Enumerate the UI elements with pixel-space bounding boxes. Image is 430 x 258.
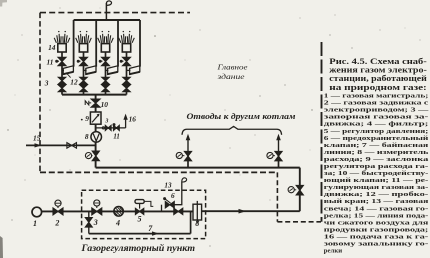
svg-text:вый кран; 13 — газовая: вый кран; 13 — газовая (324, 198, 429, 205)
pipe column 2 (83, 66, 85, 78)
boiler header pipe (96, 167, 300, 169)
svg-text:1 — газовая магистраль;: 1 — газовая магистраль; (324, 93, 429, 100)
svg-text:3: 3 (44, 79, 49, 88)
header drop pipe 1 (73, 20, 75, 67)
bypass rejoin pipe (190, 211, 192, 233)
valve 3 burner 1 (58, 77, 65, 84)
svg-text:8: 8 (195, 219, 199, 228)
svg-text:14: 14 (48, 43, 56, 52)
svg-text:релки: релки (324, 248, 342, 255)
arrow line 15 (35, 143, 42, 147)
svg-text:ющий клапан; 11 — ре-: ющий клапан; 11 — ре- (324, 177, 429, 184)
valve 11 burner 1 (58, 57, 66, 65)
igniter branch pipe 16 (96, 127, 126, 129)
svg-text:16: 16 (129, 115, 137, 124)
valve 3 burner 4 (123, 77, 130, 84)
valve 2 body (53, 208, 63, 215)
header drop pipe 2 (95, 20, 97, 67)
igniter junction dot burner 4 (120, 60, 123, 63)
svg-text:движка; 4 — фильтр;: движка; 4 — фильтр; (324, 121, 429, 128)
fast-valve actuator squiggle (85, 101, 91, 105)
gauge entry riser (288, 187, 294, 193)
damper box burner 1 (63, 66, 73, 75)
svg-text:3: 3 (105, 119, 109, 125)
vent pole 13 (174, 182, 182, 205)
vent flag (106, 1, 111, 5)
pipe column lower 3 (105, 92, 107, 95)
svg-text:15: 15 (33, 134, 41, 143)
pipe burner 3 (105, 52, 107, 57)
valve main riser (92, 151, 99, 161)
entry riser pipe (299, 168, 301, 212)
connector damper to column 3 (106, 69, 109, 71)
svg-text:релка; 15 — линия пода-: релка; 15 — линия пода- (324, 212, 429, 219)
burner gas header pipe (74, 19, 140, 21)
svg-text:11: 11 (113, 133, 119, 140)
valve line 15 (67, 143, 77, 149)
building boundary lower-right dashed wall (277, 221, 321, 223)
arrow bypass 7 (152, 231, 159, 235)
fast valve 10 (91, 99, 100, 107)
gauge riser x278 (267, 152, 273, 158)
igniter junction dot burner 3 (99, 60, 102, 63)
valve 12 burner 3 (102, 85, 109, 92)
burner 14 body 4 (122, 44, 130, 52)
svg-text:чи сжатого воздуха для: чи сжатого воздуха для (324, 219, 429, 226)
pipe burner 2 (83, 52, 85, 57)
damper 9 box (90, 112, 101, 124)
riser arrow x188 (187, 140, 189, 152)
connector damper to column 1 (62, 69, 64, 71)
damper box burner 3 (108, 66, 118, 75)
riser arrow x278 (278, 140, 280, 152)
gauge main riser (85, 153, 91, 159)
gas main line (41, 210, 193, 212)
brace over branch risers (182, 126, 282, 134)
valve 3 burner 2 (80, 77, 87, 84)
svg-text:электроприводом; 3 —: электроприводом; 3 — (324, 107, 429, 114)
gauge riser x188 (176, 152, 182, 158)
pipe column 1 (61, 66, 63, 78)
svg-text:запорная газовая за-: запорная газовая за- (324, 114, 429, 121)
bypass valve (85, 218, 92, 228)
filter 4 (114, 207, 124, 217)
svg-text:6 — предохранительный: 6 — предохранительный (324, 135, 429, 142)
svg-text:гулирующая газовая за-: гулирующая газовая за- (324, 184, 429, 191)
valve 12 burner 2 (80, 85, 87, 92)
svg-text:на природном газе:: на природном газе: (329, 83, 427, 92)
flow meter 8 circle (91, 132, 102, 143)
connector damper to column 4 (127, 69, 131, 71)
svg-text:за; 10 — быстродейству-: за; 10 — быстродейству- (324, 170, 429, 177)
pipe column lower 2 (83, 92, 85, 95)
svg-text:11: 11 (47, 57, 54, 66)
svg-text:движка; 12 — пробко-: движка; 12 — пробко- (324, 191, 429, 198)
igniter junction dot burner 2 (77, 60, 80, 63)
svg-text:13: 13 (164, 181, 172, 189)
impulse line (144, 201, 153, 206)
building boundary step dashed wall (276, 172, 278, 221)
building boundary top dashed wall (40, 12, 190, 14)
scan edge artifacts (0, 236, 3, 258)
svg-text:5 — регулятор давления;: 5 — регулятор давления; (324, 128, 429, 135)
igniter junction dot burner 1 (55, 60, 58, 63)
svg-text:2 — газовая задвижка с: 2 — газовая задвижка с (324, 100, 429, 107)
pipe column 4 (126, 66, 128, 78)
burner 14 body 1 (58, 44, 66, 52)
burner 14 flame 2 (76, 38, 78, 43)
igniter valve 11 (114, 125, 120, 130)
valve 11 burner 3 (102, 57, 110, 65)
burner 14 flame 3 (98, 38, 100, 43)
svg-text:5: 5 (138, 215, 142, 224)
valve entry riser (296, 185, 303, 195)
building boundary right dashed wall / column rule (321, 42, 323, 222)
supply pipe from GRP (202, 210, 300, 212)
igniter valve 3 (105, 125, 111, 130)
svg-text:10: 10 (101, 100, 109, 109)
regulator 5 (135, 200, 144, 204)
svg-text:клапан; 7 — байпасная: клапан; 7 — байпасная (324, 142, 429, 149)
valve 11 burner 4 (123, 57, 131, 65)
arrow supply (239, 209, 247, 214)
branch riser x278 (278, 151, 280, 167)
svg-text:3: 3 (93, 218, 98, 227)
svg-text:регулятора расхода га-: регулятора расхода га- (324, 163, 429, 170)
purge air line 15 (26, 144, 96, 146)
svg-text:4: 4 (115, 218, 120, 227)
svg-text:9: 9 (85, 114, 89, 123)
bypass drop valve (88, 211, 90, 217)
pipe column 3 (105, 66, 107, 78)
svg-text:Газорегуляторный пункт: Газорегуляторный пункт (80, 243, 195, 254)
svg-text:Отводы к другим котлам: Отводы к другим котлам (187, 112, 296, 121)
burner 14 flame 4 (119, 38, 121, 43)
svg-text:здание: здание (216, 72, 245, 81)
bypass line 7 (89, 233, 191, 235)
building boundary bottom dashed wall (40, 171, 277, 173)
burner 14 flame 1 (54, 38, 56, 43)
pipe column lower 4 (126, 92, 128, 95)
svg-text:1: 1 (33, 219, 37, 228)
valve 3 burner 3 (102, 77, 109, 84)
GRP dashed enclosure (82, 190, 206, 238)
svg-text:свеча; 14 — газовая го-: свеча; 14 — газовая го- (324, 205, 429, 212)
svg-text:12: 12 (70, 78, 78, 87)
building boundary left dashed wall (39, 13, 41, 173)
svg-text:6: 6 (171, 192, 175, 200)
svg-text:расхода; 9 — заслонка: расхода; 9 — заслонка (324, 156, 429, 163)
svg-text:Главное: Главное (216, 63, 248, 72)
igniter riser 16 (125, 118, 127, 128)
valve 12 burner 1 (58, 85, 65, 92)
branch riser x188 (187, 151, 189, 167)
pipe column lower 1 (61, 92, 63, 95)
arrow 16 (123, 114, 127, 120)
pipe burner 4 (126, 52, 128, 57)
main line valve (174, 208, 183, 214)
valve riser x188 (184, 151, 191, 160)
meter 8 box (193, 204, 202, 220)
burner 14 body 2 (79, 44, 87, 52)
pipe burner 1 (61, 52, 63, 57)
damper box burner 4 (130, 66, 140, 75)
bypass drop pipe (88, 227, 90, 233)
svg-text:8: 8 (85, 132, 89, 141)
header drop pipe 4 (139, 20, 141, 67)
valve 11 burner 2 (80, 57, 88, 65)
safety valve 6 (165, 202, 174, 208)
valve riser x278 (275, 151, 282, 160)
junction dot igniter (113, 123, 116, 126)
svg-text:продувки газопровода;: продувки газопровода; (324, 226, 429, 233)
header drop pipe 3 (117, 20, 119, 67)
pipe to header (95, 161, 97, 168)
pipe below meter (95, 142, 97, 151)
safety valve 6 branch (161, 205, 163, 212)
svg-text:линия; 8 — измеритель: линия; 8 — измеритель (324, 149, 429, 156)
svg-text:2: 2 (54, 219, 59, 228)
valve 12 burner 4 (123, 85, 130, 92)
gas main 1 circle (32, 207, 42, 217)
vent pipe 13a riser (105, 3, 107, 20)
pipe (95, 124, 97, 132)
valve 3 body (92, 208, 102, 215)
main riser pipe upper (95, 95, 97, 100)
burner manifold pipe (62, 94, 127, 96)
pipe (95, 107, 97, 112)
damper box burner 2 (86, 66, 96, 75)
burner 14 body 3 (101, 44, 109, 52)
svg-text:зовому запальнику го-: зовому запальнику го- (324, 241, 429, 248)
connector damper to column 2 (84, 69, 87, 71)
regulator 5 valve (135, 208, 143, 214)
svg-text:16 — подача газа к га-: 16 — подача газа к га- (324, 234, 429, 241)
